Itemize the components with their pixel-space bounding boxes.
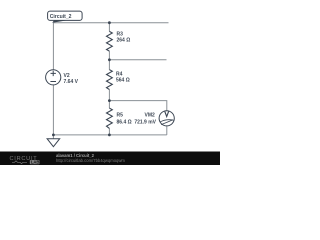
wire R4 leads xyxy=(108,60,110,101)
callout tail xyxy=(52,17,67,23)
svg-text:Circuit_2: Circuit_2 xyxy=(50,14,72,20)
resistor R3 xyxy=(107,31,113,51)
VM2 meter needle xyxy=(161,120,173,125)
wire VM2 bottom lead xyxy=(166,126,168,135)
wire bottom horizontal net xyxy=(53,134,166,136)
svg-text:564 Ω: 564 Ω xyxy=(116,77,130,83)
node dot R3-R4 junction xyxy=(108,58,111,61)
svg-text:LAB: LAB xyxy=(31,160,40,165)
voltmeter VM2 body xyxy=(159,111,174,126)
node dot bottom net at R5 xyxy=(108,134,111,137)
ground xyxy=(47,139,60,147)
svg-text:264 Ω: 264 Ω xyxy=(117,37,131,43)
wire top horizontal net xyxy=(53,22,168,24)
VM2 meter scale arc xyxy=(160,120,173,122)
footer logo waveform xyxy=(12,161,27,164)
svg-text:721.9 mV: 721.9 mV xyxy=(134,119,156,125)
wire left vertical upper (top node to V2 plus) xyxy=(52,23,54,70)
svg-text:http://circuitlab.com/7bb4qwqm: http://circuitlab.com/7bb4qwqmoqwm xyxy=(56,158,125,163)
VM2 V glyph xyxy=(165,112,169,117)
voltage source V2 body xyxy=(46,70,61,85)
svg-text:86.4 Ω: 86.4 Ω xyxy=(117,119,132,125)
resistor R5 xyxy=(107,108,113,128)
resistor R4 xyxy=(107,70,113,90)
svg-text:R5: R5 xyxy=(117,113,124,119)
wire R4-R5 node horizontal to VM2 top xyxy=(109,101,166,111)
wire R5 leads xyxy=(108,101,110,135)
svg-text:VM2: VM2 xyxy=(145,113,156,119)
callout box xyxy=(48,11,83,20)
node dot top net at R3 xyxy=(108,21,111,24)
node dot R4-R5 junction xyxy=(108,99,111,102)
wire ground lead xyxy=(52,135,54,139)
wire left vertical lower (V2 minus to ground node) xyxy=(52,85,54,135)
V2 plus and minus marks xyxy=(50,71,56,82)
wire R3-R4 node horizontal xyxy=(109,59,166,61)
footer logo LAB box xyxy=(30,160,40,164)
wire R3 leads xyxy=(108,23,110,60)
svg-text:7.64 V: 7.64 V xyxy=(64,79,79,85)
node dot ground junction xyxy=(52,134,55,137)
footer bar xyxy=(0,152,220,166)
